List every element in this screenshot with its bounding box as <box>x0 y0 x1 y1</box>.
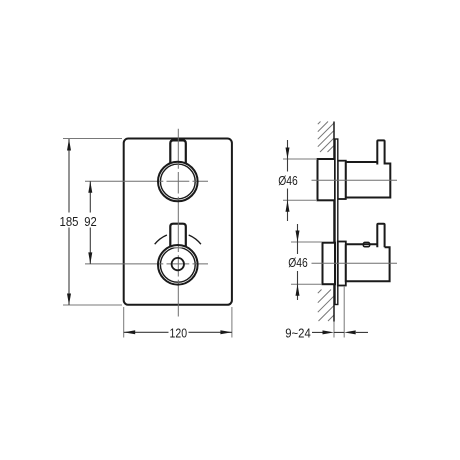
ext line bottom knob lower <box>291 283 322 285</box>
bottom knob lever <box>377 224 384 248</box>
dim 92 arrow down <box>88 252 92 264</box>
ext line plate bottom <box>63 304 122 306</box>
bottom knob body <box>346 244 390 281</box>
svg-text:185: 185 <box>60 214 79 229</box>
bottom knob inner circle <box>160 247 195 282</box>
dim 120 line <box>124 331 232 333</box>
bottom knob neck <box>338 242 346 286</box>
top knob stem <box>170 140 186 163</box>
dim top Ø46 arrow down <box>286 148 290 160</box>
ext line bottom knob upper <box>291 241 322 243</box>
top knob inner circle <box>160 164 195 199</box>
side plate <box>335 139 338 305</box>
dim 92 line <box>89 181 91 264</box>
bottom knob outer circle <box>158 245 198 285</box>
dim 9-24 line <box>312 331 368 333</box>
top knob horizontal centerline <box>85 180 208 182</box>
top knob body <box>346 162 391 198</box>
svg-text:120: 120 <box>170 325 188 340</box>
front plate vertical centerline <box>177 129 179 317</box>
bottom knob nub <box>363 242 369 246</box>
dim 185 arrow down <box>67 294 71 306</box>
wall line <box>333 122 335 322</box>
front plate <box>124 139 232 305</box>
bottom knob horizontal centerline <box>85 263 208 265</box>
bottom knob in-wall body <box>323 243 336 285</box>
ext line plate top <box>63 138 122 140</box>
dim 9-24 arrow right <box>323 330 335 334</box>
ext line plate right-bottom <box>231 307 233 338</box>
dim 9-24 arrow left <box>344 330 356 334</box>
ext line plate left-bottom <box>123 307 125 338</box>
rotation arc right <box>189 235 201 244</box>
dim bottom Ø46 arrow down <box>296 231 300 243</box>
dim 120 arrow left <box>124 330 136 334</box>
top knob lever <box>377 140 384 164</box>
side top knob centerline <box>312 179 398 181</box>
rotation arc left <box>155 235 167 244</box>
top knob outer circle <box>158 162 198 202</box>
svg-text:Ø46: Ø46 <box>288 255 308 270</box>
dim top Ø46 line <box>287 140 289 221</box>
dim bottom Ø46 arrow up <box>296 284 300 296</box>
dim 120 arrow right <box>220 330 232 334</box>
ext line 9-24 right <box>343 286 345 338</box>
wall hatching bottom <box>318 290 334 322</box>
ext line top knob upper <box>283 158 316 160</box>
dim top Ø46 arrow up <box>286 200 290 212</box>
top knob neck <box>338 161 346 199</box>
dim 92 arrow up <box>88 181 92 193</box>
bottom knob stem <box>170 224 186 248</box>
dim bottom Ø46 line <box>297 224 299 300</box>
wall hatching top <box>318 122 334 153</box>
svg-text:9~24: 9~24 <box>285 325 311 340</box>
side bottom knob centerline <box>312 262 398 264</box>
svg-text:92: 92 <box>84 214 97 229</box>
ext line top knob lower <box>283 199 316 201</box>
top knob in-wall body <box>318 159 336 200</box>
svg-text:Ø46: Ø46 <box>278 173 298 188</box>
bottom knob center circle <box>172 258 184 270</box>
ext line 9-24 left (wall line continuation) <box>333 322 335 338</box>
dim 185 arrow up <box>67 139 71 151</box>
dim 185 line <box>68 139 70 305</box>
